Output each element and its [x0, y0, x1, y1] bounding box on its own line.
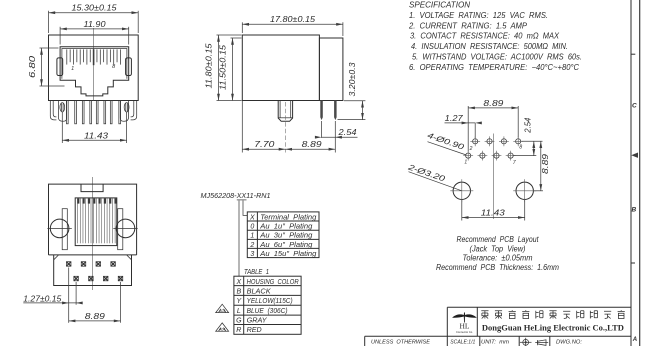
svg-text:8: 8 — [112, 64, 116, 70]
svg-text:B: B — [236, 288, 241, 295]
svg-text:Terminal Plating: Terminal Plating — [260, 214, 316, 221]
dimension 11.43 (mounting hole span) — [461, 200, 463, 221]
svg-text:BLUE (306C): BLUE (306C) — [247, 308, 288, 315]
post center line (dashed) — [284, 102, 286, 153]
side view: connector main body — [242, 35, 319, 101]
svg-text:A03: A03 — [219, 309, 225, 313]
PCB layout vertical center line — [492, 134, 494, 220]
svg-text:17.80±0.15: 17.80±0.15 — [270, 15, 316, 24]
svg-text:X: X — [249, 214, 255, 221]
bottom view center line — [92, 177, 94, 290]
svg-text:1.27: 1.27 — [445, 114, 464, 123]
front view contact pins row — [66, 101, 68, 124]
left post hole circle — [50, 219, 69, 238]
dimension 6.80 (opening height) — [40, 47, 59, 49]
title block middle divider — [365, 335, 631, 337]
logo tail line — [463, 317, 465, 323]
zone tick upper — [631, 53, 635, 55]
zone tick lower — [631, 262, 635, 264]
border center arrow marker — [631, 153, 638, 158]
svg-text:C: C — [632, 103, 637, 110]
dimension 11.43 (front leg span) — [61, 112, 63, 143]
svg-text:8.89: 8.89 — [85, 312, 106, 321]
svg-text:R: R — [236, 327, 241, 334]
right post hole circle — [116, 219, 135, 238]
svg-text:UNLESS OTHERWISE: UNLESS OTHERWISE — [371, 340, 431, 346]
dimension 15.30±0.15 (front overall width) — [48, 11, 50, 33]
dimension 3.20±0.3 (pin length) — [344, 100, 365, 102]
right latch tab — [126, 58, 132, 76]
svg-text:TABLE 1: TABLE 1 — [244, 267, 269, 276]
left outer shield hook leg — [50, 101, 56, 120]
PCB layout pin holes top row (pins 2,4,6,8) — [470, 136, 480, 146]
bottom view: contact comb block — [75, 198, 117, 246]
svg-text:2: 2 — [249, 242, 254, 249]
label 2-Ø3.20 with leader — [409, 172, 462, 191]
svg-text:2.54: 2.54 — [337, 128, 357, 137]
svg-text:Tolerance: ±0.05mm: Tolerance: ±0.05mm — [463, 253, 533, 262]
PCB layout pin holes bottom row (pins 1,3,5,7) — [463, 151, 473, 161]
right outer shield hook leg — [131, 101, 137, 120]
dimension 2.54 (PCB row offset) — [522, 140, 543, 142]
contact comb slots (8 contacts) — [66, 49, 68, 64]
svg-text:DWG.NO:: DWG.NO: — [556, 340, 582, 346]
svg-text:Recommend PCB Thickness: 1.: Recommend PCB Thickness: 1.6mm — [436, 263, 559, 272]
svg-text:GRAY: GRAY — [247, 317, 268, 324]
svg-text:Au 6u″ Plating: Au 6u″ Plating — [259, 242, 312, 249]
svg-text:YELLOW(115C): YELLOW(115C) — [247, 298, 293, 305]
svg-text:1: 1 — [464, 160, 467, 166]
leader line to plating table — [243, 201, 247, 216]
comb stripes — [77, 198, 79, 243]
dimension 8.89 (PCB top span) — [467, 106, 469, 152]
side view: PCB mounting post — [278, 101, 292, 122]
bottom view solder pads upper row — [66, 262, 71, 267]
svg-text:0: 0 — [250, 224, 254, 231]
company name Chinese: DongGuanShi HeLing DianZi YouXian GongSi (drawn glyphs) — [481, 310, 625, 318]
svg-text:UNIT: mm: UNIT: mm — [481, 340, 509, 346]
svg-text:7: 7 — [513, 160, 516, 166]
svg-text:11.90: 11.90 — [84, 20, 107, 29]
svg-text:6. OPERATING TEMPERATURE: −: 6. OPERATING TEMPERATURE: −40°C~+80°C — [409, 63, 579, 72]
bottom row cell dividers — [479, 336, 481, 346]
svg-text:11.50±0.15: 11.50±0.15 — [218, 44, 227, 90]
svg-text:HL: HL — [460, 322, 470, 331]
left slot — [62, 209, 67, 250]
svg-text:6.80: 6.80 — [28, 55, 37, 78]
label 4-Ø0.90 with leader — [428, 142, 467, 155]
svg-text:Connector Co.: Connector Co. — [456, 330, 473, 334]
svg-text:DongGuan HeLing Electronic Co.: DongGuan HeLing Electronic Co.,LTD — [482, 323, 624, 333]
title block top edge — [447, 306, 631, 308]
dimension 8.89 (PCB vertical span) — [534, 190, 543, 192]
svg-text:B: B — [631, 207, 636, 214]
leader line to housing color table — [238, 201, 240, 277]
svg-text:11.80±0.15: 11.80±0.15 — [204, 43, 213, 89]
left board-lock leg with oval hole — [58, 101, 66, 122]
svg-text:Au 1u″ Plating: Au 1u″ Plating — [259, 224, 312, 231]
side view solder pin 1 — [320, 101, 323, 121]
svg-text:HOUSING COLOR: HOUSING COLOR — [247, 279, 299, 286]
svg-text:X: X — [235, 279, 241, 286]
svg-text:3: 3 — [250, 251, 254, 258]
svg-text:1: 1 — [71, 66, 74, 72]
logo cell divider — [476, 307, 478, 336]
bottom view: lower terminal block — [54, 255, 132, 286]
bottom view solder pads lower row — [74, 276, 79, 281]
left latch tab — [57, 58, 63, 76]
svg-text:1: 1 — [250, 233, 254, 240]
bottom view: top latch notch — [81, 184, 103, 192]
chamfer corners of terminal block — [54, 255, 59, 260]
dimension 11.80±0.15 (body height) — [217, 34, 242, 36]
underline below XX digits — [237, 199, 247, 201]
contact wire ends (dark marks) — [77, 198, 79, 203]
svg-text:L: L — [237, 308, 241, 315]
revision triangle A04 — [216, 323, 229, 331]
revision triangle A03 — [216, 304, 229, 312]
svg-text:11.43: 11.43 — [481, 208, 506, 217]
svg-text:Y: Y — [236, 298, 242, 305]
front view vertical center line — [92, 28, 94, 101]
dimension 11.90 (opening width) — [59, 27, 61, 45]
dimension 17.80±0.15 (side overall depth) — [241, 22, 243, 33]
projection symbol side view (cone) — [535, 340, 548, 346]
svg-text:SPECIFICATION: SPECIFICATION — [409, 0, 470, 9]
front view: RJ45 jack body outline — [49, 35, 139, 101]
dimension 11.50±0.15 (rear section height) — [231, 37, 242, 39]
dimension 7.70 (post position) — [241, 101, 243, 153]
svg-text:Recommend PCB Layout: Recommend PCB Layout — [457, 235, 540, 244]
dimension 8.89 (pin position) — [285, 148, 335, 150]
svg-text:A: A — [632, 337, 637, 343]
svg-text:BLACK: BLACK — [247, 288, 271, 295]
sheet outer border line — [639, 0, 641, 346]
svg-text:2.54: 2.54 — [523, 117, 532, 133]
svg-text:2. CURRENT RATING: 1.5 AMP: 2. CURRENT RATING: 1.5 AMP — [408, 21, 528, 30]
mounting hole left (2-Ø3.20) — [453, 182, 470, 199]
svg-text:SCALE:1/1: SCALE:1/1 — [450, 340, 475, 346]
svg-text:MJ562208-XX11-RN1: MJ562208-XX11-RN1 — [201, 191, 271, 200]
dimension 2.54 (side pin pitch) — [321, 121, 323, 138]
svg-text:11.43: 11.43 — [84, 131, 109, 140]
company logo bird symbol — [452, 312, 477, 322]
svg-text:7.70: 7.70 — [254, 140, 275, 149]
housing color table frame — [234, 276, 301, 334]
title block left edge — [446, 307, 448, 346]
svg-text:Au 15u″ Plating: Au 15u″ Plating — [259, 251, 316, 258]
svg-text:15.30±0.15: 15.30±0.15 — [72, 4, 118, 13]
projection symbol front view (target) — [520, 338, 532, 346]
svg-text:(Jack Top View): (Jack Top View) — [470, 245, 526, 254]
right slot — [118, 209, 123, 250]
svg-text:8.89: 8.89 — [483, 99, 504, 108]
side view: rear contact housing section — [319, 38, 343, 101]
svg-text:Au 3u″ Plating: Au 3u″ Plating — [259, 233, 312, 240]
svg-text:3. CONTACT RESISTANCE: 40: 3. CONTACT RESISTANCE: 40 mΩ MAX — [410, 32, 560, 41]
svg-text:4-Ø0.90: 4-Ø0.90 — [426, 131, 466, 152]
svg-text:G: G — [236, 317, 242, 324]
terminal plating table frame — [247, 212, 319, 258]
side view solder pin 2 — [334, 101, 337, 121]
bottom view: step edge line — [49, 254, 137, 256]
right board-lock leg with oval hole — [120, 101, 128, 122]
bottom-left notes box edge — [364, 336, 366, 346]
sheet inner border line — [630, 0, 632, 346]
opening inner wall line — [62, 49, 127, 79]
svg-text:5. WITHSTAND VOLTAGE: AC100: 5. WITHSTAND VOLTAGE: AC1000V RMS 60s. — [412, 52, 582, 61]
svg-text:3.20±0.3: 3.20±0.3 — [348, 62, 357, 97]
svg-text:1.27±0.15: 1.27±0.15 — [23, 294, 62, 303]
svg-text:8: 8 — [519, 145, 522, 151]
front view: RJ45 port opening with latch keyway — [60, 47, 129, 96]
mounting hole right — [516, 182, 533, 199]
contact at center position (dark) — [93, 49, 95, 65]
svg-text:8.89: 8.89 — [302, 140, 323, 149]
svg-text:4. INSULATION RESISTANCE: 5: 4. INSULATION RESISTANCE: 500MΩ MIN. — [411, 42, 568, 51]
svg-text:2: 2 — [469, 146, 473, 152]
bottom view: body outline upper part — [49, 184, 137, 255]
svg-text:1. VOLTAGE RATING: 125 VAC: 1. VOLTAGE RATING: 125 VAC RMS. — [409, 11, 548, 20]
svg-text:8.89: 8.89 — [541, 153, 550, 174]
svg-text:A04: A04 — [219, 328, 225, 332]
svg-text:RED: RED — [247, 327, 262, 334]
